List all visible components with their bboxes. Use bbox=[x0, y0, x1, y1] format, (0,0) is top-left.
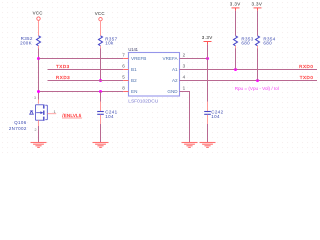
svg-text:U141: U141 bbox=[128, 47, 138, 52]
power 3.3V symbol (VREFA) bbox=[202, 35, 213, 44]
wire EN row bbox=[39, 91, 124, 93]
capacitor C242 104 bbox=[204, 109, 223, 119]
svg-text:Rpu = (Vpu - Vol) / Iol: Rpu = (Vpu - Vol) / Iol bbox=[235, 86, 279, 91]
svg-text:3: 3 bbox=[183, 63, 186, 68]
svg-text:2N7002: 2N7002 bbox=[9, 126, 27, 131]
svg-text:3.3V: 3.3V bbox=[202, 35, 213, 40]
resistor R353 680 bbox=[234, 36, 254, 49]
wire VREFB row to IC pin 7 bbox=[39, 58, 124, 60]
wire RXD3 to IC pin 5 bbox=[48, 80, 124, 82]
IC U141 LSF0102DCU box bbox=[128, 47, 179, 104]
svg-text:4: 4 bbox=[183, 74, 186, 79]
transistor Q106 2N7002 symbol bbox=[30, 104, 48, 120]
svg-text:VREFA: VREFA bbox=[163, 56, 179, 61]
wire 3.3V down through VREFA node to C242 bbox=[207, 45, 209, 102]
svg-text:Q106: Q106 bbox=[14, 120, 27, 125]
svg-text:/ENLVL5: /ENLVL5 bbox=[62, 113, 82, 118]
svg-text:A1: A1 bbox=[172, 67, 178, 72]
svg-text:RXD3: RXD3 bbox=[56, 75, 70, 80]
wire R353 to RXD0 row bbox=[235, 48, 237, 69]
ground symbol under IC GND pin bbox=[182, 143, 198, 148]
svg-text:2: 2 bbox=[35, 128, 37, 132]
wire VREFA to 3.3V column bbox=[180, 58, 208, 60]
wire 3.3V to R353 bbox=[235, 11, 237, 36]
IC right pin stubs bbox=[180, 59, 185, 92]
junction node RXD0 pull-up bbox=[234, 68, 237, 71]
svg-text:1: 1 bbox=[183, 85, 186, 90]
power 3.3V symbol (R354) bbox=[251, 1, 262, 10]
svg-text:GND: GND bbox=[167, 89, 178, 94]
net label /ENLVL5 bbox=[62, 113, 82, 118]
svg-text:3.3V: 3.3V bbox=[251, 1, 262, 6]
svg-text:B2: B2 bbox=[131, 78, 137, 83]
svg-text:3.3V: 3.3V bbox=[230, 1, 241, 6]
power VCC symbol (left, feeds R352) bbox=[33, 11, 43, 21]
Q106 gate pin stub bbox=[47, 113, 56, 115]
wire GND pin to ground bbox=[180, 92, 190, 143]
svg-text:A2: A2 bbox=[172, 78, 178, 83]
power 3.3V symbol (R353) bbox=[230, 1, 241, 10]
power VCC symbol (second, feeds R357) bbox=[95, 11, 105, 21]
resistor R357 10k bbox=[99, 36, 118, 49]
svg-text:2: 2 bbox=[183, 52, 186, 57]
wire R352 down to Q106 drain column bbox=[38, 48, 40, 99]
svg-text:VCC: VCC bbox=[33, 11, 43, 16]
svg-text:TXD0: TXD0 bbox=[300, 75, 314, 80]
wire Q106 source to ground bbox=[38, 120, 40, 126]
svg-text:680: 680 bbox=[263, 41, 272, 46]
capacitor C241 104 bbox=[97, 109, 117, 119]
svg-text:680: 680 bbox=[241, 41, 250, 46]
wire EN down to C241 bbox=[100, 92, 102, 102]
wire A2 to TXD0 bbox=[180, 80, 318, 82]
svg-text:EN: EN bbox=[131, 89, 137, 94]
junction node TXD0 pull-up bbox=[256, 79, 259, 82]
wire VCC to R357 bbox=[100, 21, 102, 36]
svg-text:TXD3: TXD3 bbox=[56, 64, 70, 69]
wire C241 to ground bbox=[100, 115, 102, 124]
svg-text:104: 104 bbox=[211, 114, 220, 119]
svg-text:104: 104 bbox=[105, 114, 114, 119]
ground symbol under Q106 bbox=[31, 143, 47, 148]
junction node VREFA/C242 bbox=[206, 57, 209, 60]
wire TXD3 to IC pin 6 bbox=[48, 69, 124, 71]
svg-text:200K: 200K bbox=[20, 41, 32, 46]
wire VCC to R352 bbox=[38, 20, 40, 35]
wire C242 to ground bbox=[207, 115, 209, 124]
wire A1 to RXD0 bbox=[180, 69, 318, 71]
svg-text:5: 5 bbox=[122, 74, 125, 79]
junction node VREFB (R352/EN/drain) bbox=[37, 57, 40, 60]
svg-text:7: 7 bbox=[122, 52, 125, 57]
ground symbol under C242 bbox=[200, 143, 216, 148]
svg-text:B1: B1 bbox=[131, 67, 137, 72]
junction node RXD3 pull-up bbox=[99, 79, 102, 82]
svg-text:LSF0102DCU: LSF0102DCU bbox=[128, 98, 158, 104]
wire R357 down to RXD3 row bbox=[100, 48, 102, 80]
IC left pin stubs bbox=[123, 59, 128, 92]
junction node EN at C241 bbox=[99, 90, 102, 93]
svg-text:6: 6 bbox=[122, 63, 125, 68]
svg-text:10k: 10k bbox=[105, 41, 114, 46]
resistor R352 200K bbox=[20, 36, 40, 49]
svg-text:3: 3 bbox=[34, 96, 36, 100]
svg-text:VREFB: VREFB bbox=[131, 56, 146, 61]
svg-text:RXD0: RXD0 bbox=[299, 64, 313, 69]
wire 3.3V to R354 bbox=[257, 11, 259, 36]
svg-text:VCC: VCC bbox=[95, 11, 105, 16]
wire R354 to TXD0 row bbox=[257, 48, 259, 80]
ground symbol under C241 bbox=[93, 143, 109, 148]
resistor R354 680 bbox=[256, 36, 276, 49]
svg-text:8: 8 bbox=[122, 85, 125, 90]
junction node EN at drain column bbox=[37, 90, 40, 93]
